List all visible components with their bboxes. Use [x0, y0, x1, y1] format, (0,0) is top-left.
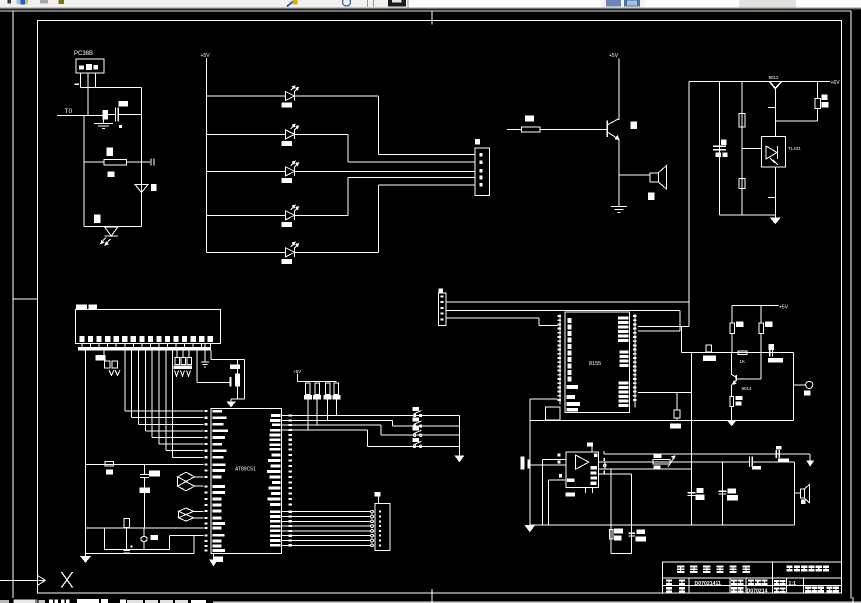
svg-text:1:1: 1:1: [789, 581, 797, 587]
svg-text:9012: 9012: [769, 75, 780, 80]
svg-text:9014: 9014: [742, 386, 753, 391]
svg-text:8155: 8155: [589, 361, 601, 367]
svg-text:D070214: D070214: [747, 588, 768, 594]
svg-text:AT89C51: AT89C51: [235, 467, 256, 473]
svg-text:T0: T0: [65, 108, 73, 115]
svg-text:+5V: +5V: [293, 369, 301, 374]
svg-text:1K: 1K: [740, 359, 746, 364]
svg-text:PC38B: PC38B: [74, 51, 93, 57]
svg-text:+5V: +5V: [779, 305, 789, 311]
svg-text:+5V: +5V: [201, 53, 211, 59]
svg-text:+5V: +5V: [609, 53, 619, 59]
svg-text:TL431: TL431: [788, 146, 801, 151]
svg-text:D07021411: D07021411: [695, 581, 722, 587]
svg-text:+6V: +6V: [831, 80, 841, 86]
